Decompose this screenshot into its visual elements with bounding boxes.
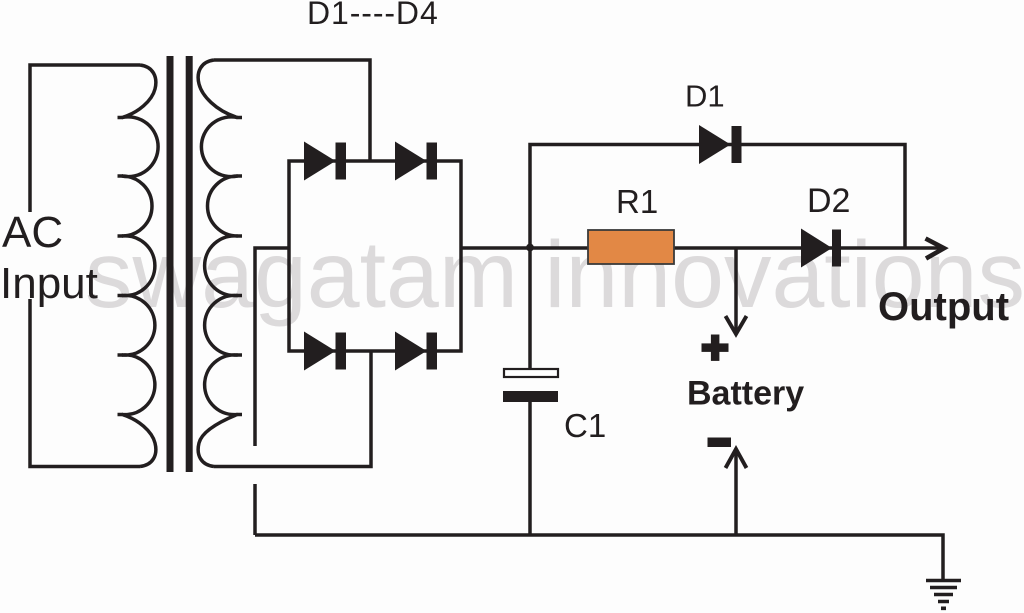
wire bridge negative to bottom rail [255,248,289,535]
diode D1 [699,125,731,164]
svg-text:C1: C1 [564,407,606,444]
wire C1 branch upper [528,248,532,369]
battery plus sign [702,343,729,352]
svg-text:Input: Input [0,259,98,308]
transformer T1 primary winding [122,65,158,467]
bridge diode top-left [304,142,336,181]
bridge diode bottom-right [395,332,427,371]
wire AC input left vertical upper [30,65,140,212]
ground symbol [926,581,961,609]
wire AC input left vertical lower [30,299,140,467]
output arrowhead [926,239,945,259]
wire bottom ground rail [255,535,943,579]
battery positive arrow [734,248,738,330]
secondary cusp ticks [237,118,243,415]
wire bridge positive rail to output [461,246,941,250]
wire secondary bottom to bridge [214,351,371,467]
svg-text:D2: D2 [807,182,850,220]
svg-text:AC: AC [2,208,63,257]
wire C1 branch lower [528,402,532,535]
transformer secondary winding [198,60,237,467]
bridge rectifier outline [289,161,461,351]
svg-text:R1: R1 [616,183,658,220]
wire secondary top to bridge [214,60,370,161]
transformer core [170,56,189,472]
bridge diode bottom-left [304,332,336,371]
node junction dot [526,244,534,252]
battery minus sign [708,438,732,448]
capacitor C1 bottom plate [503,391,558,402]
primary cusp ticks [118,118,124,415]
svg-text:Output: Output [878,285,1009,329]
capacitor C1 top plate [504,369,558,377]
diode D2 [801,229,832,268]
svg-text:Battery: Battery [687,375,804,413]
svg-text:D1: D1 [685,79,725,114]
resistor R1 [588,230,674,264]
battery negative arrow [734,451,738,535]
wire D1 branch [530,145,905,249]
svg-text:D1----D4: D1----D4 [307,0,439,31]
bridge diode top-right [395,142,427,181]
